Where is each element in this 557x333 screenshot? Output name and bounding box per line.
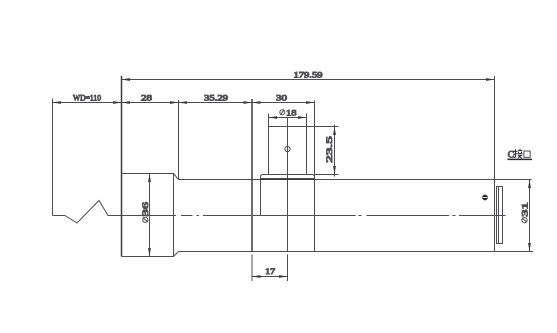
extension line front face (left edge of lens): [121, 76, 123, 257]
label diam36: [140, 201, 150, 222]
hole circle on port block: [285, 146, 290, 151]
svg-text:31: 31: [519, 202, 529, 217]
port base plate outline: [261, 175, 315, 180]
svg-text:28: 28: [141, 93, 153, 103]
dimension 23.5: [307, 126, 339, 128]
dimension diam18: [268, 114, 270, 127]
dimension chain line row 2: [53, 102, 315, 104]
label diam18: [280, 110, 285, 115]
svg-text:17: 17: [265, 266, 276, 276]
front ring barrel (diam 36) outline: [122, 174, 174, 257]
extension line step x=252: [251, 99, 253, 252]
C-mount thread ring: [497, 187, 503, 244]
node object-plane line: [52, 99, 54, 216]
svg-text:179.59: 179.59: [294, 70, 324, 80]
wire optical axis break zigzag: [65, 201, 122, 224]
underline for C-mount label: [508, 158, 533, 160]
label 23.5: [324, 135, 334, 163]
dimension diam31: [529, 180, 531, 252]
svg-text:23.5: 23.5: [324, 135, 334, 163]
svg-text:36: 36: [140, 201, 150, 216]
dimension line 179.59: [122, 79, 495, 81]
main barrel bottom edge + diam31 bottom extension: [179, 251, 534, 253]
C-mount thread ring inner line: [498, 187, 500, 244]
chamfer bottom rear of ring: [174, 252, 179, 257]
extension line chamfer end x=178.5: [178, 100, 180, 180]
wire optical axis centerline dash-dot through lens: [122, 215, 506, 217]
dimension 17: [252, 276, 288, 278]
label diam31: [519, 202, 529, 222]
extension line port axis x=287.5: [287, 118, 289, 252]
port base plate thick bottom edge: [261, 178, 315, 180]
set screw on rear cap: [482, 195, 488, 201]
glyph jie (hand-drawn): [513, 149, 522, 158]
chamfer top rear of ring: [174, 174, 179, 180]
svg-text:WD=110: WD=110: [73, 93, 102, 103]
port block outline: [269, 127, 307, 175]
extension line rear end x=494.5: [494, 76, 496, 252]
svg-text:35.29: 35.29: [204, 93, 229, 103]
internal bore vertical edge: [260, 180, 262, 216]
wire optical axis left solid segment: [53, 215, 66, 217]
svg-text:30: 30: [276, 93, 288, 103]
internal bore horizontal edge: [261, 215, 315, 217]
main barrel top edge + diam31 top extension: [179, 179, 532, 181]
extension line joint x=314.5: [314, 101, 316, 252]
svg-text:18: 18: [286, 107, 297, 117]
glyph kou (mouth box): [524, 151, 530, 157]
dimension diam36: [149, 174, 151, 257]
